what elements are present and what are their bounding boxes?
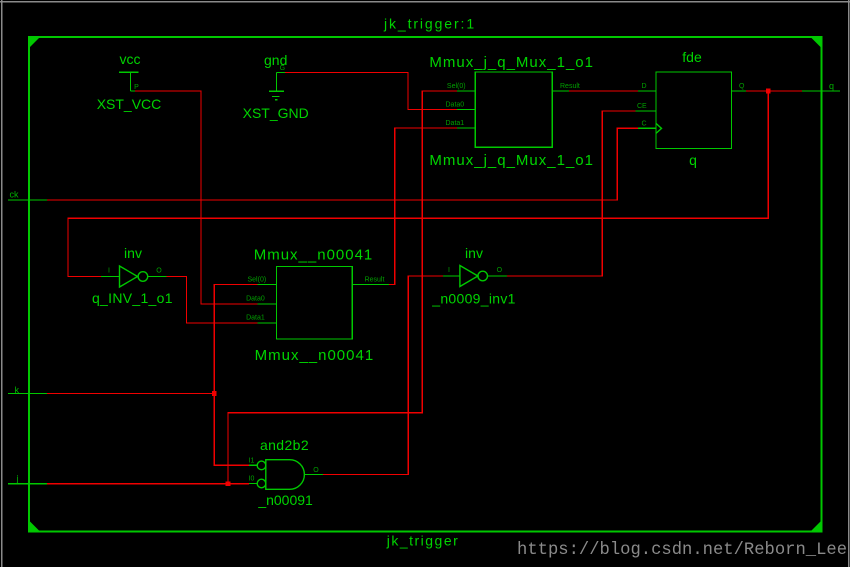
- svg-text:q_INV_1_o1: q_INV_1_o1: [92, 290, 173, 306]
- svg-text:ck: ck: [10, 190, 20, 200]
- svg-text:Q: Q: [739, 83, 745, 90]
- svg-text:jk_trigger:1: jk_trigger:1: [383, 16, 476, 32]
- svg-text:Mmux__n00041: Mmux__n00041: [254, 247, 374, 264]
- svg-text:CE: CE: [637, 103, 647, 110]
- svg-text:Mmux_j_q_Mux_1_o1: Mmux_j_q_Mux_1_o1: [429, 54, 594, 71]
- svg-text:D: D: [642, 83, 647, 90]
- svg-text:Result: Result: [365, 277, 385, 284]
- svg-text:I0: I0: [249, 476, 255, 483]
- svg-text:https://blog.csdn.net/Reborn_L: https://blog.csdn.net/Reborn_Lee: [517, 541, 847, 560]
- svg-text:Sel(0): Sel(0): [447, 83, 466, 90]
- svg-text:vcc: vcc: [120, 51, 141, 67]
- svg-text:C: C: [642, 121, 647, 128]
- svg-text:O: O: [497, 267, 503, 274]
- svg-text:and2b2: and2b2: [260, 437, 309, 453]
- svg-text:O: O: [156, 268, 162, 275]
- svg-text:_n00091: _n00091: [257, 492, 313, 508]
- svg-text:Data0: Data0: [246, 296, 265, 303]
- svg-text:Result: Result: [560, 83, 580, 90]
- svg-text:Sel(0): Sel(0): [248, 277, 267, 284]
- svg-text:q: q: [689, 152, 697, 168]
- svg-text:I: I: [448, 267, 450, 274]
- svg-text:Mmux__n00041: Mmux__n00041: [255, 347, 375, 364]
- svg-text:Data0: Data0: [446, 102, 465, 109]
- svg-text:_n0009_inv1: _n0009_inv1: [431, 291, 516, 307]
- svg-text:P: P: [134, 84, 139, 91]
- svg-text:inv: inv: [465, 245, 483, 261]
- svg-text:I1: I1: [249, 458, 255, 465]
- svg-text:fde: fde: [682, 49, 702, 65]
- svg-text:jk_trigger: jk_trigger: [386, 533, 460, 549]
- svg-text:q: q: [829, 81, 834, 91]
- svg-text:Data1: Data1: [446, 120, 465, 127]
- svg-text:j: j: [16, 474, 19, 484]
- svg-text:O: O: [313, 467, 319, 474]
- svg-text:G: G: [280, 65, 285, 72]
- svg-text:k: k: [15, 385, 20, 395]
- svg-text:Data1: Data1: [246, 315, 265, 322]
- svg-text:Mmux_j_q_Mux_1_o1: Mmux_j_q_Mux_1_o1: [429, 152, 594, 169]
- svg-text:inv: inv: [124, 245, 142, 261]
- svg-text:XST_GND: XST_GND: [243, 105, 309, 121]
- svg-text:XST_VCC: XST_VCC: [97, 96, 162, 112]
- svg-text:I: I: [108, 268, 110, 275]
